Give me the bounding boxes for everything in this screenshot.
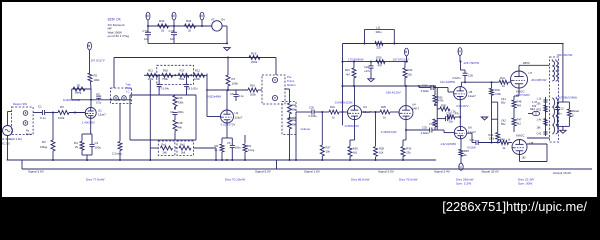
svg-text:470k: 470k	[495, 92, 501, 96]
svg-text:R30: R30	[406, 147, 411, 151]
svg-text:280V: 280V	[523, 61, 530, 65]
svg-text:C 52: C 52	[143, 29, 149, 33]
svg-text:1Meg: 1Meg	[75, 91, 82, 95]
svg-text:Ra1: Ra1	[162, 142, 167, 146]
svg-text:Signal 3.0V: Signal 3.0V	[378, 170, 395, 174]
svg-text:R28: R28	[379, 147, 384, 151]
svg-text:R47: R47	[517, 118, 522, 122]
svg-text:0.1u: 0.1u	[40, 116, 46, 120]
svg-text:C9: C9	[170, 110, 174, 114]
svg-text:U7: U7	[529, 71, 533, 75]
svg-text:U3: U3	[363, 105, 367, 109]
svg-text:R17: R17	[180, 69, 185, 73]
svg-text:R32: R32	[159, 19, 165, 23]
svg-text:U2: U2	[235, 111, 239, 115]
svg-text:Volume: Volume	[301, 127, 311, 131]
svg-text:R9: R9	[248, 144, 252, 148]
svg-text:470k: 470k	[429, 122, 435, 126]
svg-text:-1.020/172V: -1.020/172V	[220, 123, 235, 127]
svg-text:≡: ≡	[199, 14, 204, 17]
svg-text:Sym: 30W: Sym: 30W	[518, 182, 532, 186]
svg-text:Diss 86.8mW: Diss 86.8mW	[351, 178, 369, 182]
svg-text:0.033u: 0.033u	[309, 114, 318, 118]
svg-text:C6: C6	[230, 92, 234, 96]
svg-text:R34: R34	[186, 19, 192, 23]
svg-text:Rload: Rload	[572, 109, 579, 113]
svg-text:C43: C43	[537, 133, 542, 136]
svg-text:R24: R24	[330, 105, 335, 109]
svg-text:R8: R8	[215, 144, 219, 148]
svg-text:200k: 200k	[251, 60, 258, 64]
svg-text:C13: C13	[559, 106, 564, 110]
svg-text:470k: 470k	[438, 99, 444, 103]
svg-text:C8 0.02u: C8 0.02u	[187, 86, 198, 90]
svg-text:22k: 22k	[406, 151, 411, 155]
svg-text:100u: 100u	[235, 146, 241, 150]
svg-text:0.022u: 0.022u	[421, 89, 430, 93]
svg-text:Diss 77.8mW: Diss 77.8mW	[86, 178, 104, 182]
svg-text:20n: 20n	[449, 119, 454, 123]
svg-text:200k: 200k	[250, 93, 256, 97]
svg-text:B15F OK: B15F OK	[108, 17, 122, 21]
svg-text:22k: 22k	[377, 46, 382, 50]
svg-text:R41: R41	[500, 76, 505, 80]
svg-text:1.40/240V: 1.40/240V	[82, 120, 95, 124]
svg-text:C41: C41	[501, 97, 506, 101]
svg-text:≡: ≡	[457, 50, 462, 53]
svg-text:1.4k: 1.4k	[537, 119, 542, 122]
svg-text:100k: 100k	[232, 82, 239, 86]
svg-text:R49: R49	[500, 137, 505, 141]
svg-text:100k: 100k	[94, 78, 100, 82]
svg-text:29k: 29k	[292, 108, 297, 112]
svg-text:186.4/120V: 186.4/120V	[386, 91, 401, 95]
svg-text:Ra1: Ra1	[292, 103, 297, 107]
svg-text:100k: 100k	[58, 116, 65, 120]
svg-text:Diss 70.10mW: Diss 70.10mW	[225, 178, 245, 182]
svg-text:R42: R42	[495, 88, 500, 92]
svg-text:R16: R16	[163, 69, 168, 73]
svg-text:Ra2: Ra2	[180, 142, 185, 146]
svg-text:0.3u: 0.3u	[96, 101, 102, 105]
svg-text:≡: ≡	[171, 14, 176, 17]
svg-text:C7 0.04u: C7 0.04u	[159, 86, 170, 90]
svg-text:4k9: 4k9	[517, 104, 522, 108]
svg-text:C22: C22	[364, 65, 369, 69]
svg-text:700k: 700k	[178, 101, 184, 105]
svg-text:-132.23/90W: -132.23/90W	[440, 142, 456, 146]
svg-text:2k8: 2k8	[163, 151, 168, 155]
svg-text:Signal 5.0V: Signal 5.0V	[255, 170, 272, 174]
svg-text:C20: C20	[309, 105, 314, 109]
svg-text:R2: R2	[42, 140, 46, 144]
svg-text:Return: Return	[287, 83, 296, 87]
svg-text:U6: U6	[468, 126, 472, 130]
svg-text:0.022u: 0.022u	[421, 131, 430, 135]
svg-text:R27: R27	[326, 146, 331, 150]
svg-text:100p: 100p	[178, 110, 184, 114]
svg-text:369.6/69.5W: 369.6/69.5W	[557, 53, 573, 57]
svg-text:2k8: 2k8	[181, 151, 186, 155]
svg-text:[2286x751]http://upic.me/: [2286x751]http://upic.me/	[442, 199, 587, 214]
svg-text:C26: C26	[468, 74, 473, 78]
svg-text:Signal 35.0V: Signal 35.0V	[481, 170, 499, 174]
svg-text:10n: 10n	[144, 37, 149, 41]
svg-text:47k: 47k	[378, 64, 383, 68]
svg-text:85u: 85u	[501, 122, 506, 126]
svg-text:47k: 47k	[455, 111, 460, 115]
svg-text:10k: 10k	[379, 151, 384, 155]
svg-text:10n: 10n	[170, 37, 175, 41]
svg-text:Signal 1.6V: Signal 1.6V	[304, 170, 321, 174]
svg-text:C25: C25	[422, 125, 427, 129]
svg-text:R52: R52	[537, 109, 542, 112]
svg-text:C3: C3	[96, 92, 100, 96]
svg-text:100k: 100k	[194, 77, 200, 81]
svg-text:R21: R21	[345, 68, 350, 72]
svg-text:V1 SINE(0 1 1k): V1 SINE(0 1 1k)	[1, 137, 22, 141]
svg-text:Signal 3.4V: Signal 3.4V	[434, 170, 451, 174]
svg-text:Diss 76.0mW: Diss 76.0mW	[399, 178, 417, 182]
svg-text:12ax7: 12ax7	[468, 94, 476, 98]
svg-text:10k: 10k	[326, 150, 331, 154]
svg-text:85u: 85u	[501, 100, 506, 104]
svg-text:R3: R3	[60, 105, 64, 109]
svg-text:1 C: 1 C	[126, 90, 130, 94]
svg-text:C2: C2	[95, 141, 99, 145]
svg-text:4.7k/7.05k/5.04kW: 4.7k/7.05k/5.04kW	[556, 96, 578, 100]
svg-text:C24: C24	[422, 83, 427, 87]
svg-text:750k: 750k	[179, 77, 185, 81]
svg-text:R48: R48	[517, 100, 522, 104]
svg-text:-9.02(W: -9.02(W	[467, 146, 477, 150]
svg-text:5.64/89/115M: 5.64/89/115M	[335, 101, 353, 105]
svg-text:R13: R13	[178, 96, 183, 100]
svg-text:1N4223K46M: 1N4223K46M	[63, 98, 81, 102]
svg-text:6V6GC: 6V6GC	[516, 134, 525, 138]
svg-text:C34: C34	[446, 111, 451, 115]
svg-text:197.0/117V: 197.0/117V	[91, 59, 105, 63]
svg-text:Fuse: Fuse	[26, 132, 32, 136]
svg-text:R22: R22	[408, 68, 413, 72]
svg-text:V7: V7	[211, 18, 215, 22]
svg-text:0.43/93.6(W: 0.43/93.6(W	[381, 130, 397, 134]
svg-text:R29: R29	[353, 147, 358, 151]
svg-text:R5: R5	[94, 74, 98, 78]
svg-text:(Tone: (Tone	[126, 86, 133, 90]
svg-text:R18: R18	[178, 121, 183, 125]
svg-text:1Meg: 1Meg	[40, 145, 48, 149]
svg-text:100k: 100k	[489, 137, 495, 141]
svg-text:≡: ≡	[87, 44, 92, 47]
svg-text:Treb: Treb	[126, 83, 132, 87]
svg-text:750k: 750k	[162, 77, 168, 81]
svg-text:1.1k: 1.1k	[537, 98, 542, 101]
svg-text:R15: R15	[251, 51, 257, 55]
svg-text:180: 180	[522, 157, 527, 160]
svg-text:1N(32k46M: 1N(32k46M	[206, 95, 222, 99]
svg-text:L11: L11	[376, 25, 381, 29]
svg-text:C 56: C 56	[169, 29, 175, 33]
svg-text:C32: C32	[470, 138, 475, 142]
svg-text:2.2meg: 2.2meg	[112, 152, 122, 156]
svg-text:1k5: 1k5	[353, 151, 358, 155]
svg-text:+47u: +47u	[364, 69, 371, 73]
svg-text:R38: R38	[441, 104, 446, 108]
svg-text:R45: R45	[464, 149, 469, 153]
svg-text:R11: R11	[148, 69, 153, 73]
svg-text:6AK7: 6AK7	[412, 107, 419, 111]
svg-text:≡: ≡	[404, 50, 409, 53]
svg-text:Sym: 5.2W: Sym: 5.2W	[456, 182, 471, 186]
svg-text:Return 9W: Return 9W	[13, 102, 27, 106]
svg-text:AC 1 0: AC 1 0	[1, 142, 10, 146]
svg-text:R25: R25	[381, 105, 386, 109]
svg-text:1meg: 1meg	[248, 148, 255, 152]
svg-text:8k2: 8k2	[517, 122, 522, 126]
svg-text:R44: R44	[489, 133, 494, 137]
svg-text:-6.98/64.5V: -6.98/64.5V	[344, 124, 359, 128]
svg-text:44k: 44k	[178, 126, 183, 130]
svg-text:22k: 22k	[408, 73, 413, 77]
svg-text:300u: 300u	[376, 30, 382, 34]
svg-text:B+: B+	[222, 18, 226, 22]
svg-text:12ax7: 12ax7	[235, 116, 243, 120]
svg-text:C1: C1	[38, 105, 42, 109]
svg-text:175.85/90W: 175.85/90W	[348, 58, 364, 62]
svg-text:≡: ≡	[145, 14, 150, 17]
svg-text:C5: C5	[227, 141, 231, 145]
svg-text:C42: C42	[501, 118, 506, 122]
svg-text:R1: R1	[77, 83, 81, 87]
svg-text:4.90/117V: 4.90/117V	[456, 104, 469, 108]
svg-text:49.77/120V: 49.77/120V	[516, 93, 530, 97]
svg-text:R7: R7	[232, 77, 236, 81]
svg-text:12ax7: 12ax7	[98, 113, 106, 117]
svg-text:0.1u: 0.1u	[239, 94, 245, 98]
svg-text:4k7: 4k7	[346, 73, 351, 77]
svg-text:264.6/89.5W: 264.6/89.5W	[531, 78, 547, 82]
svg-text:Output 15.0V: Output 15.0V	[553, 171, 572, 175]
svg-text:R20: R20	[377, 55, 382, 59]
svg-text:R16: R16	[250, 84, 255, 88]
svg-text:226.7/90?W: 226.7/90?W	[464, 61, 480, 65]
svg-text:R12: R12	[195, 69, 200, 73]
svg-text:Signal 3.6V: Signal 3.6V	[28, 170, 45, 174]
svg-text:100u: 100u	[95, 146, 102, 150]
svg-text:132.23/85W: 132.23/85W	[440, 80, 455, 84]
svg-text:µs ref 50 1 V*leg: µs ref 50 1 V*leg	[108, 34, 130, 38]
